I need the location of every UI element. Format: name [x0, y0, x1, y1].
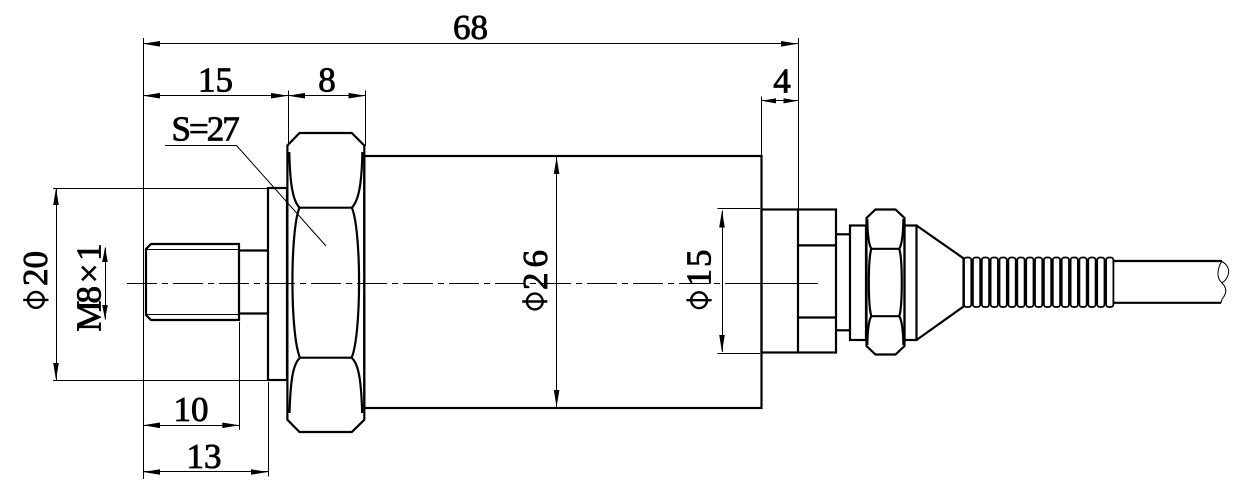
svg-text:15: 15: [679, 248, 718, 287]
svg-text:13: 13: [187, 437, 222, 476]
svg-text:26: 26: [516, 245, 555, 290]
svg-text:S=27: S=27: [172, 109, 240, 148]
svg-text:10: 10: [174, 390, 209, 429]
svg-text:M8 × 1: M8 × 1: [69, 245, 108, 332]
svg-text:68: 68: [453, 8, 488, 47]
svg-text:20: 20: [16, 251, 55, 286]
svg-text:15: 15: [198, 61, 233, 100]
svg-text:4: 4: [773, 62, 791, 101]
svg-text:8: 8: [318, 61, 336, 100]
